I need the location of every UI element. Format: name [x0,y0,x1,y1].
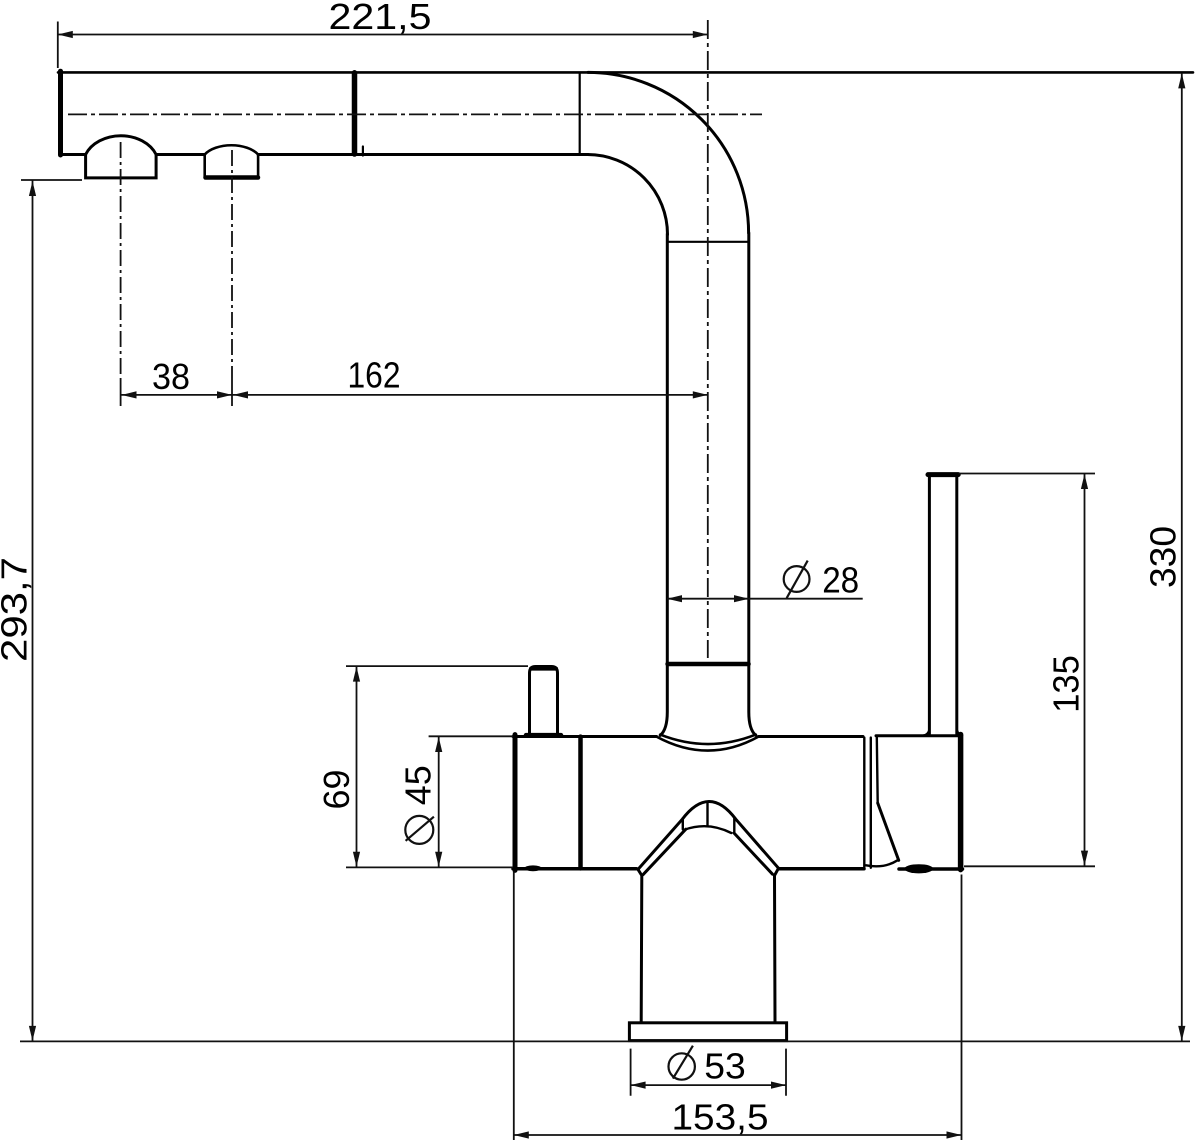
handle rod top cap [928,472,958,477]
spout thick joint bar [352,73,358,154]
diverter pin top edge [531,667,556,671]
centerline bump 1 [120,142,122,378]
svg-text:330: 330 [1143,526,1184,588]
body bottom-left dark oval [524,865,542,871]
baseline [20,1040,1190,1042]
aerator bump 1 [86,136,157,178]
riser pipe thick joint [668,662,749,667]
dim line d28 [667,598,863,600]
arrows 135 [1081,474,1088,489]
diverter pin base [526,733,561,738]
ext line 293,7 top [21,179,82,181]
diverter pin outline [530,667,558,737]
base tent inner band [643,829,773,875]
stem right edge [775,868,779,1021]
body left cap divider [578,737,583,869]
bend outer arc [588,72,749,233]
riser pipe right edge [749,233,756,735]
centerline riser pipe [707,20,709,658]
spout left end edge [58,71,63,155]
valve cap left edge [876,737,879,803]
valve cap top [876,734,961,737]
spout bottom outline [63,153,588,156]
svg-text:135: 135 [1045,655,1086,713]
svg-text:38: 38 [152,356,190,397]
valve cap bottom [899,867,963,871]
body top line [513,735,863,738]
svg-text:45: 45 [398,765,439,805]
body ring lines [864,738,871,868]
tent tick left [682,818,684,829]
arrows d28 [667,595,682,602]
centerline spout [68,113,762,115]
svg-text:293,7: 293,7 [0,557,35,662]
stem left edge [638,869,642,1021]
arrows 153,5 [514,1131,529,1138]
svg-text:28: 28 [822,560,859,601]
svg-text:162: 162 [348,355,401,396]
svg-text:153,5: 153,5 [672,1097,769,1138]
ext lines d53 [631,1049,786,1096]
bend inner arc [588,155,668,235]
spout small tick [362,147,364,156]
cap bottom dark oval [904,864,933,873]
handle rod base fillets [924,731,963,736]
diameter symbol d28 [787,561,808,599]
dim line 330 [1181,73,1183,1041]
aerator bump 2 [205,145,258,177]
arrows 69 [353,667,360,682]
dim line 69 [356,667,358,867]
arrows d53 [631,1082,646,1089]
saddle outer arc [660,735,756,744]
arrows 38 [122,391,137,398]
lever collar arc [866,860,898,866]
base flange [629,1023,786,1041]
arrows 293,7 [29,181,36,196]
handle rod right edge [955,474,958,734]
body bottom line [513,867,864,871]
centerline bump 2 [231,150,233,378]
ext lines 135 [959,474,1096,867]
spout top outline / 330 top extension [58,71,1193,74]
riser pipe left edge [660,234,667,735]
arrows 162 [233,391,248,398]
valve cap right thick edge [958,735,964,870]
tent tick center [706,803,708,826]
dim line d45 [438,737,440,867]
handle rod left edge [928,474,931,734]
ext lines 153,5 [514,872,962,1141]
arrows 330 [1178,73,1185,88]
tent tick right [733,819,735,834]
arrows d45 [435,737,442,752]
body left thick edge [513,735,518,871]
ext lines 69 [346,666,528,867]
dim line 38 / 162 [121,394,708,396]
bend end joint line [668,241,749,243]
spout joint line [579,74,581,154]
diameter symbol d53 [673,1046,693,1079]
aerator bump 2 thick base [206,175,259,180]
ext line d45 top [429,735,513,737]
ext line 221,5 left [57,22,59,69]
dim line d53 [631,1084,786,1086]
svg-text:221,5: 221,5 [329,0,432,37]
saddle inner arc [657,737,759,751]
tent dome bottom arc [685,826,732,833]
dim line 221,5 [58,34,708,36]
dim line 153,5 [514,1134,962,1136]
lever diagonal [878,803,899,860]
diameter symbol d45 rotated [406,817,434,841]
dim line 293,7 [32,181,34,1041]
svg-text:69: 69 [316,770,357,810]
svg-text:53: 53 [704,1046,746,1087]
arrows 221,5 [58,31,73,38]
base tent outer band [638,801,779,869]
dim line 135 [1084,474,1086,866]
